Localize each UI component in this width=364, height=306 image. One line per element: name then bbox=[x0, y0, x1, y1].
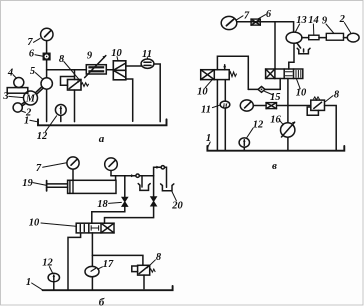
leader label 10 bbox=[117, 57, 118, 61]
svg-text:16: 16 bbox=[270, 115, 281, 126]
leader label 12 bbox=[247, 128, 253, 137]
leader label 2 bbox=[344, 23, 350, 33]
FIGURE A bbox=[2, 28, 166, 145]
svg-text:10: 10 bbox=[197, 86, 208, 97]
svg-text:7: 7 bbox=[244, 11, 250, 22]
svg-text:12: 12 bbox=[37, 131, 48, 142]
wire 11 right down to tank bbox=[154, 64, 160, 122]
svg-text:2: 2 bbox=[339, 14, 346, 25]
tachometer 4 bbox=[14, 78, 24, 88]
leader label 8 bbox=[147, 260, 155, 268]
leader label 13 bbox=[296, 24, 300, 32]
svg-text:7: 7 bbox=[27, 37, 33, 48]
gauge 7 bbox=[41, 28, 53, 40]
gauge fig v bbox=[240, 100, 253, 111]
coupling arrows left bbox=[131, 174, 135, 177]
directional valve 10 right bbox=[266, 69, 303, 79]
svg-text:1: 1 bbox=[26, 277, 31, 288]
wire 10 to 11 bbox=[126, 65, 141, 67]
shaft motor to pump 2 bbox=[21, 102, 25, 105]
wire branch to relief valve 8 bbox=[74, 70, 76, 80]
tank (reservoir) fig b bbox=[43, 286, 173, 290]
svg-text:б: б bbox=[99, 297, 105, 306]
wire jog up right bbox=[154, 167, 167, 187]
leader label 1 bbox=[32, 283, 43, 290]
leader label 11 bbox=[146, 57, 148, 59]
leader label 10 right bbox=[297, 79, 301, 89]
wire check line bbox=[248, 88, 258, 90]
electric motor 3 bbox=[24, 91, 38, 105]
svg-text:6: 6 bbox=[266, 9, 272, 20]
relief valve 8 bbox=[138, 265, 150, 275]
svg-text:10: 10 bbox=[296, 88, 307, 99]
leader label 19 bbox=[33, 183, 46, 186]
svg-text:1: 1 bbox=[24, 115, 29, 126]
wire left shutoff drop bbox=[124, 176, 126, 198]
wire gauge line bbox=[253, 105, 266, 107]
leader label 15 bbox=[265, 91, 273, 94]
wire top measuring line bbox=[111, 175, 154, 177]
wire valve left port to tank bbox=[68, 233, 81, 290]
wire right shutoff to valve port bbox=[105, 206, 154, 223]
svg-text:5: 5 bbox=[30, 66, 35, 77]
svg-text:10: 10 bbox=[29, 218, 40, 229]
FIGURE B bbox=[22, 157, 183, 306]
leader label 1 bbox=[208, 142, 210, 147]
hydraulic motor 11 bbox=[220, 101, 230, 108]
svg-text:8: 8 bbox=[59, 54, 65, 65]
wire valve bottom to check loop bbox=[279, 79, 281, 90]
leader label 5 bbox=[35, 73, 42, 79]
throttle 9 bbox=[326, 33, 343, 40]
FIGURE V bbox=[197, 9, 359, 172]
wire 9 to 10 bbox=[106, 69, 113, 71]
svg-text:13: 13 bbox=[296, 15, 307, 26]
relief valve 8 bbox=[61, 77, 75, 86]
pump 5 bbox=[41, 78, 52, 89]
pump 17 bbox=[85, 266, 99, 276]
shaft 5 to motor bbox=[36, 87, 42, 92]
leader label 6 bbox=[258, 15, 265, 19]
filter 10 bbox=[113, 61, 126, 80]
tank (reservoir) fig v bbox=[207, 146, 344, 151]
leader label 14 bbox=[312, 24, 314, 35]
piston rod bbox=[47, 183, 68, 185]
wire tee down to valve bbox=[274, 22, 276, 69]
wire right gauge stem bbox=[110, 171, 112, 176]
thermometer 12 bbox=[55, 105, 66, 116]
wire valve to pump 17 to tank bbox=[91, 233, 93, 290]
relief valve 8 bbox=[311, 100, 325, 110]
leader label 6 bbox=[35, 55, 43, 57]
pilot arrow on left valve bbox=[224, 65, 226, 70]
leader label 8 bbox=[325, 96, 333, 102]
svg-text:8: 8 bbox=[156, 252, 162, 263]
leader label 4 bbox=[13, 75, 17, 79]
leader label 10 left bbox=[205, 80, 212, 88]
tank (reservoir) fig a bbox=[38, 119, 167, 125]
leader label 2 bbox=[21, 111, 25, 112]
damper 15 bbox=[266, 103, 276, 109]
wire funnel 1 stub bbox=[141, 176, 143, 187]
leader label 20 bbox=[172, 192, 176, 201]
leader label 18 bbox=[109, 202, 122, 203]
pump 2 bbox=[347, 33, 359, 42]
coupling arrows right bbox=[156, 166, 160, 169]
thermometer 12 bbox=[48, 273, 59, 282]
svg-text:15: 15 bbox=[270, 92, 281, 103]
svg-text:7: 7 bbox=[36, 163, 42, 174]
damper 6 bbox=[251, 19, 260, 25]
svg-text:8: 8 bbox=[334, 90, 340, 101]
wire 10 bottom to tank bbox=[126, 79, 133, 121]
cooler 11 bbox=[141, 59, 154, 68]
wire top supply line bbox=[237, 22, 294, 33]
svg-text:18: 18 bbox=[97, 199, 108, 210]
svg-text:11: 11 bbox=[142, 49, 152, 60]
hydraulic motor 13 bbox=[286, 32, 302, 43]
leader label 10 bbox=[41, 223, 76, 226]
wire valve 8 to tank bbox=[74, 90, 76, 122]
leader label 7 bbox=[34, 38, 41, 42]
leader label 12 bbox=[45, 116, 56, 132]
wire motor 13 to valve bbox=[289, 43, 294, 69]
svg-text:И: И bbox=[221, 102, 228, 109]
svg-text:M: M bbox=[25, 94, 36, 105]
svg-text:12: 12 bbox=[42, 258, 53, 269]
leader label 16 bbox=[280, 120, 284, 124]
cylinder 19 bbox=[68, 180, 116, 193]
throttle 9 bbox=[86, 65, 106, 74]
svg-text:9: 9 bbox=[322, 15, 328, 26]
wire main riser to pump 16 bbox=[287, 79, 289, 124]
shutoff valve 18 bbox=[122, 197, 128, 206]
spring left valve bbox=[229, 72, 236, 77]
drain funnel 2 bbox=[161, 184, 174, 191]
drain funnel under 13 bbox=[297, 43, 301, 48]
svg-text:19: 19 bbox=[22, 178, 33, 189]
leader label 1 bbox=[30, 120, 37, 121]
check valve 15 bbox=[258, 87, 265, 93]
leader label 12 bbox=[49, 267, 52, 273]
drain funnel 1 bbox=[138, 184, 150, 191]
wire left valve loop bbox=[217, 56, 248, 89]
svg-text:6: 6 bbox=[29, 49, 35, 60]
orifice 14 bbox=[309, 35, 319, 40]
wire gauge riser bbox=[46, 41, 48, 78]
wire thermometer 12 stem bbox=[60, 115, 62, 121]
damper 6 bbox=[43, 53, 50, 59]
wire right shutoff drop bbox=[153, 176, 155, 197]
stand under tachometer bbox=[7, 88, 28, 94]
svg-text:14: 14 bbox=[308, 15, 319, 26]
svg-text:в: в bbox=[272, 160, 277, 172]
gauge right bbox=[105, 158, 118, 171]
pump 2 bbox=[13, 103, 22, 112]
wire thermometer 12 stem bbox=[243, 147, 245, 151]
wire valve 8 to tank bbox=[325, 106, 337, 151]
svg-text:20: 20 bbox=[171, 200, 183, 211]
wire main line pump to throttle 9 bbox=[47, 69, 87, 71]
leader label 8 bbox=[64, 62, 79, 80]
wire 18 down to valve port bbox=[92, 206, 125, 223]
wire left valve to tank bbox=[216, 80, 218, 151]
svg-text:3: 3 bbox=[2, 91, 8, 102]
leader label 11 bbox=[212, 105, 219, 107]
leader label 17 bbox=[98, 267, 103, 269]
wire pump to tank bbox=[46, 89, 48, 122]
gauge 7 left bbox=[67, 157, 79, 169]
svg-text:17: 17 bbox=[103, 259, 114, 270]
leader label 3 bbox=[9, 96, 23, 97]
leader label 7 bbox=[237, 16, 243, 20]
wire left gauge stem bbox=[72, 169, 74, 180]
directional valve 10 left bbox=[201, 70, 230, 80]
wire valve 8 to tank bbox=[143, 275, 145, 289]
directional valve 10 bbox=[76, 223, 114, 233]
wire 13-14-9-2 bbox=[302, 37, 309, 39]
variable pump 16 bbox=[281, 123, 295, 137]
svg-text:12: 12 bbox=[253, 120, 264, 131]
leader label 9 bbox=[326, 24, 334, 33]
leader label 7 bbox=[43, 163, 67, 167]
svg-text:4: 4 bbox=[7, 67, 13, 78]
shutoff valve right bbox=[151, 197, 157, 206]
svg-text:а: а bbox=[99, 133, 105, 145]
gauge 7 bbox=[221, 16, 237, 29]
wire branch to relief 8 bbox=[92, 255, 142, 265]
thermometer 12 bbox=[239, 138, 249, 147]
wire cylinder to line bbox=[115, 176, 117, 181]
wire through motor 11 to tank bbox=[224, 80, 226, 151]
svg-text:10: 10 bbox=[111, 48, 122, 59]
svg-text:11: 11 bbox=[201, 104, 211, 115]
svg-text:9: 9 bbox=[87, 51, 93, 62]
svg-text:1: 1 bbox=[206, 133, 211, 144]
